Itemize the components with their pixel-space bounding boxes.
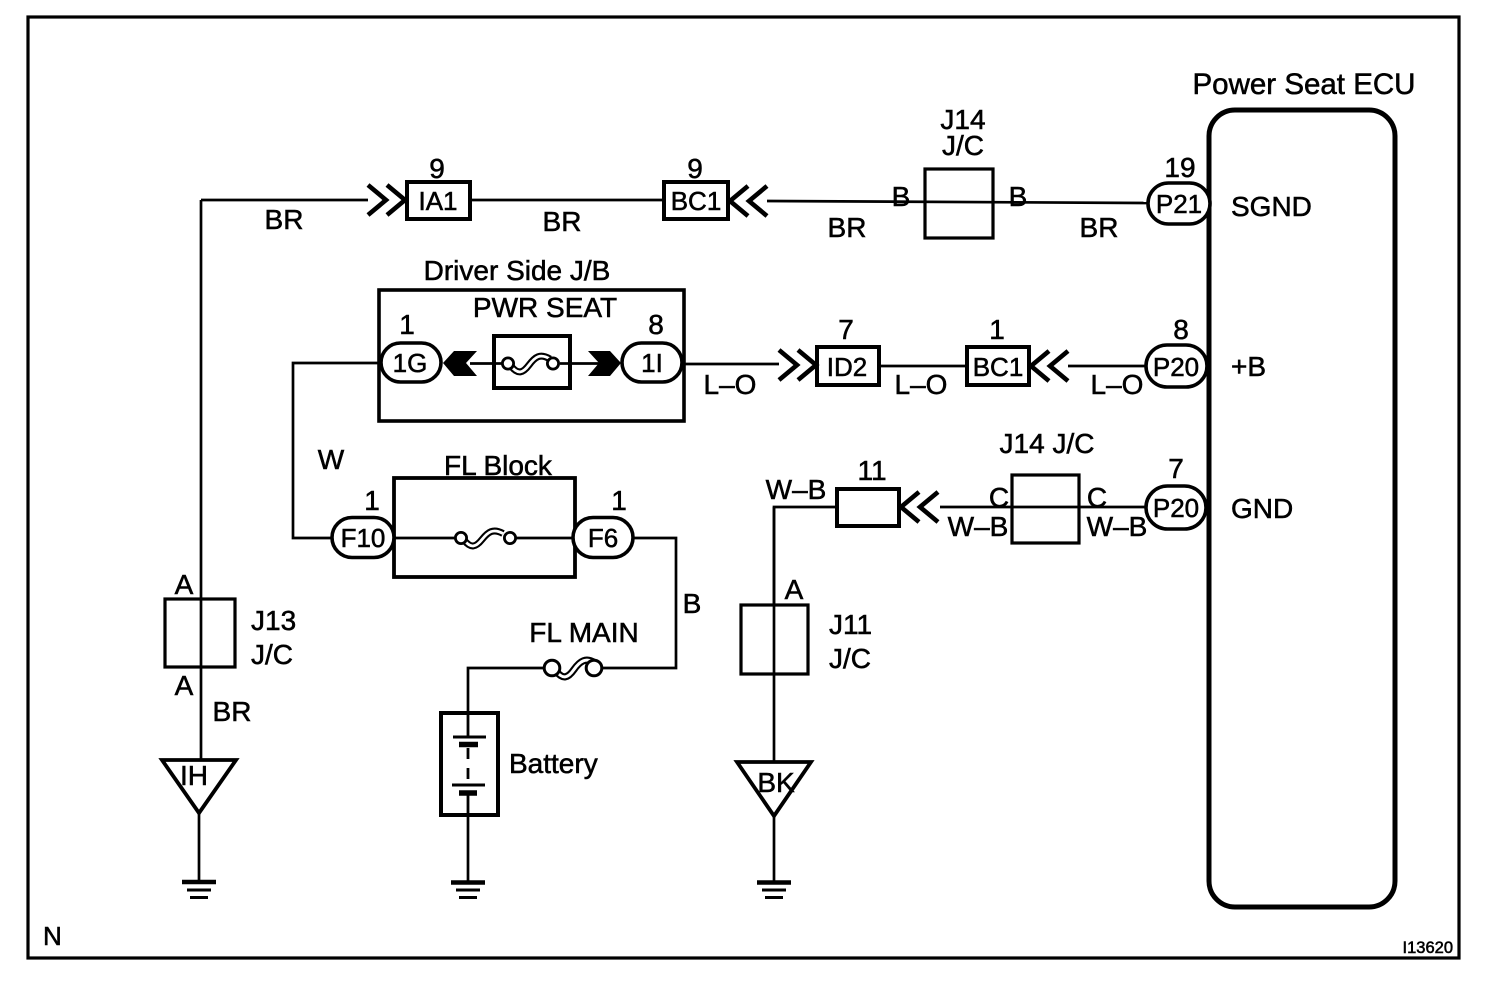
wire J11 inside and below (773, 507, 776, 762)
svg-text:B: B (892, 181, 911, 212)
splice arrows into ID2 (779, 350, 816, 380)
svg-text:1G: 1G (393, 348, 428, 378)
svg-text:C: C (989, 482, 1009, 513)
svg-text:Driver Side J/B: Driver Side J/B (424, 255, 611, 286)
wire left vertical BR branch (200, 200, 203, 760)
svg-text:W–B: W–B (948, 511, 1009, 542)
svg-text:1: 1 (611, 485, 627, 516)
svg-text:F10: F10 (341, 523, 386, 553)
wire IH to ground (198, 813, 201, 881)
fuse FL block wave (394, 531, 575, 546)
svg-text:W: W (318, 444, 345, 475)
wire arrow to fuse box (470, 362, 501, 365)
svg-text:BC1: BC1 (671, 186, 722, 216)
svg-text:B: B (1009, 181, 1028, 212)
junction connector J14 J/C (892, 104, 1028, 238)
svg-text:P20: P20 (1153, 493, 1199, 523)
svg-text:B: B (683, 588, 702, 619)
svg-text:GND: GND (1231, 493, 1293, 524)
svg-text:A: A (175, 670, 194, 701)
svg-text:A: A (785, 574, 804, 605)
battery BAT1 (441, 713, 598, 815)
wire BK to ground (773, 816, 776, 881)
svg-text:1: 1 (989, 314, 1005, 345)
ground symbol left (182, 882, 216, 898)
svg-text:11: 11 (857, 455, 886, 486)
svg-text:F6: F6 (588, 523, 618, 553)
svg-text:J/C: J/C (942, 130, 984, 161)
svg-text:BC1: BC1 (973, 352, 1024, 382)
svg-text:IH: IH (180, 760, 208, 791)
FL Block (394, 450, 575, 577)
ground connector triangle BK (737, 762, 811, 816)
Driver Side J/B block (379, 255, 684, 421)
svg-text:W–B: W–B (1087, 511, 1148, 542)
svg-text:BR: BR (828, 212, 867, 243)
FL Block pin F10 terminal 1 (332, 485, 394, 558)
ground symbol battery (451, 883, 485, 898)
fuse arrow right (solid) (588, 351, 621, 376)
splice arrows into BC1 (+B row) (1031, 351, 1068, 381)
svg-text:ID2: ID2 (827, 352, 867, 382)
ECU pin P21 terminal 19 (1148, 152, 1210, 224)
fuse PWR SEAT (in box) (494, 336, 570, 388)
connector IA1 pin 9 (407, 153, 470, 219)
svg-text:J11: J11 (829, 609, 872, 640)
wire fuse box to arrow (570, 362, 599, 365)
svg-text:W–B: W–B (766, 474, 827, 505)
ECU pin P20 terminal 7 (GND) (1146, 453, 1206, 529)
svg-text:9: 9 (429, 153, 445, 184)
connector BC1 pin 9 (664, 153, 728, 219)
wire 1I to splice arrows (682, 363, 779, 366)
svg-text:BK: BK (757, 767, 795, 798)
svg-text:BR: BR (543, 206, 582, 237)
connector BC1 pin 1 (967, 314, 1029, 385)
splice arrows into BC1 (730, 186, 767, 216)
connector 11 (837, 455, 899, 526)
wire ID2 to BC1 (879, 365, 967, 368)
wire battery to ground (467, 815, 470, 881)
svg-text:19: 19 (1164, 152, 1195, 183)
svg-text:9: 9 (687, 153, 703, 184)
wire connector 11 to J11 (774, 507, 837, 605)
svg-text:7: 7 (838, 314, 854, 345)
svg-text:7: 7 (1168, 453, 1184, 484)
svg-text:J14 J/C: J14 J/C (1000, 428, 1095, 459)
svg-text:FL MAIN: FL MAIN (529, 617, 638, 648)
svg-text:8: 8 (1173, 314, 1189, 345)
wire FL MAIN to battery (468, 668, 544, 714)
svg-text:8: 8 (648, 309, 664, 340)
svg-text:I13620: I13620 (1403, 939, 1453, 957)
svg-text:A: A (175, 569, 194, 600)
svg-text:L–O: L–O (895, 369, 948, 400)
fuse FL MAIN (529, 617, 638, 677)
svg-text:J13: J13 (251, 605, 296, 636)
J/B pin 1I terminal 8 (622, 309, 682, 382)
wire 1G left branch to F10 (293, 363, 381, 538)
FL Block pin F6 terminal 1 (573, 485, 633, 558)
svg-text:Battery: Battery (509, 748, 598, 779)
svg-text:C: C (1087, 482, 1107, 513)
splice arrows into connector 11 (901, 492, 938, 522)
svg-text:J/C: J/C (251, 639, 293, 670)
svg-text:BR: BR (213, 696, 252, 727)
connector ID2 pin 7 (817, 314, 879, 385)
ECU pin P20 terminal 8 (1146, 314, 1207, 387)
svg-text:P20: P20 (1153, 352, 1199, 382)
wire P20 through J14 J/C to splice (940, 506, 1146, 509)
ECU block U1 Power Seat ECU (1193, 68, 1416, 907)
svg-text:1: 1 (364, 485, 380, 516)
svg-text:P21: P21 (1156, 189, 1202, 219)
fuse arrow left (solid) (443, 351, 477, 376)
wire SGND horizontal from node corner to connector IA1 (201, 199, 368, 202)
J/B pin 1G terminal 1 (381, 309, 441, 382)
svg-text:BR: BR (265, 204, 304, 235)
svg-text:SGND: SGND (1231, 191, 1312, 222)
svg-text:PWR SEAT: PWR SEAT (473, 292, 617, 323)
svg-text:N: N (43, 921, 62, 951)
svg-text:1: 1 (399, 309, 415, 340)
svg-text:L–O: L–O (1091, 369, 1144, 400)
svg-text:L–O: L–O (704, 369, 757, 400)
ground connector triangle IH (162, 760, 236, 813)
junction connector J14 J/C pin C (948, 428, 1148, 543)
splice arrows into IA1 (368, 185, 405, 215)
svg-text:+B: +B (1231, 351, 1266, 382)
wire BC1 to P20 (1068, 365, 1147, 368)
ground symbol right (757, 883, 791, 898)
svg-text:1I: 1I (641, 348, 663, 378)
junction connector J11 J/C pin A (741, 574, 872, 674)
svg-text:J/C: J/C (829, 643, 871, 674)
svg-text:BR: BR (1080, 212, 1119, 243)
wire F6 down to FL MAIN (602, 538, 676, 668)
wire BC1 through J14 to P21 (767, 201, 1148, 203)
wire IA1 to BC1 (470, 199, 664, 202)
svg-text:IA1: IA1 (418, 186, 457, 216)
junction connector J13 J/C pin A (165, 569, 296, 701)
svg-text:Power Seat ECU: Power Seat ECU (1193, 68, 1416, 101)
